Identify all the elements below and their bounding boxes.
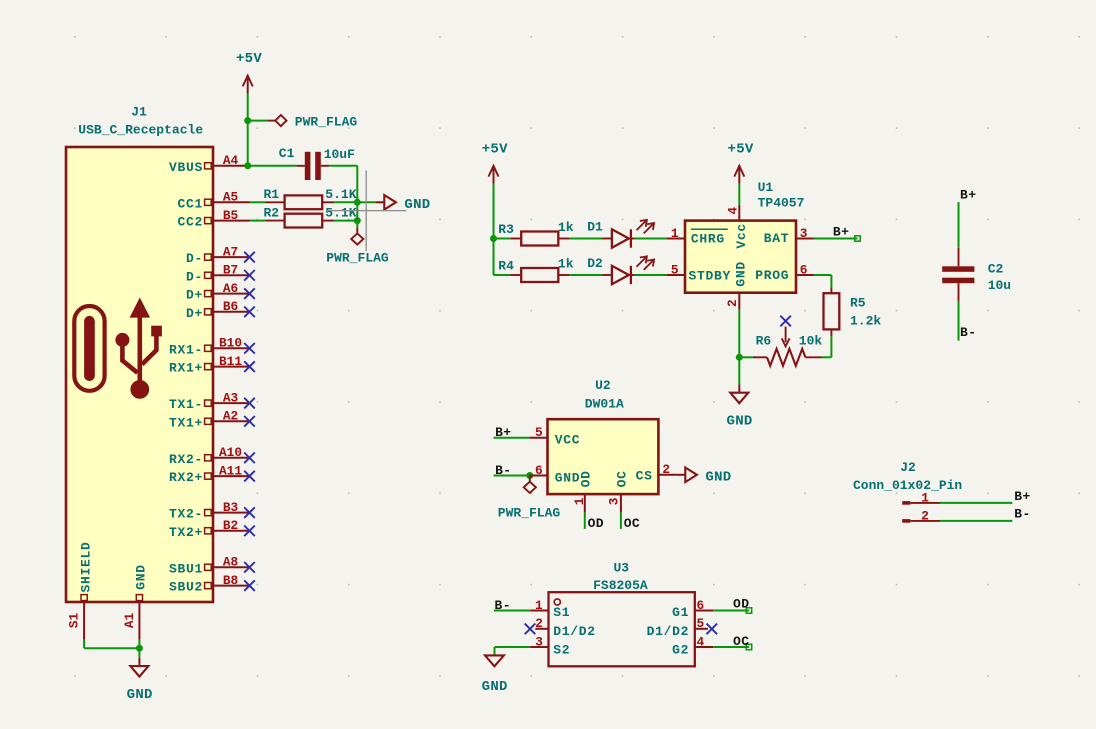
svg-text:J1: J1 bbox=[131, 104, 147, 119]
junction GND net under U1 bbox=[736, 354, 743, 361]
svg-text:GND: GND bbox=[127, 687, 153, 703]
wire BAT to B+ bbox=[814, 238, 858, 240]
svg-text:B8: B8 bbox=[223, 573, 238, 588]
svg-text:+5V: +5V bbox=[728, 141, 754, 157]
cursor crosshair bbox=[326, 171, 406, 252]
svg-text:R3: R3 bbox=[498, 222, 514, 237]
svg-text:GND: GND bbox=[705, 469, 731, 485]
svg-text:2: 2 bbox=[921, 508, 929, 523]
IC U1 TP4057 body bbox=[685, 180, 804, 293]
svg-text:CC2: CC2 bbox=[177, 215, 203, 230]
svg-text:C1: C1 bbox=[279, 146, 295, 161]
svg-text:1: 1 bbox=[535, 598, 543, 613]
svg-text:VCC: VCC bbox=[555, 433, 581, 448]
svg-text:R4: R4 bbox=[498, 259, 514, 274]
svg-text:RX2+: RX2+ bbox=[169, 470, 203, 485]
svg-text:D+: D+ bbox=[186, 288, 203, 303]
svg-text:DW01A: DW01A bbox=[585, 397, 624, 412]
svg-text:R2: R2 bbox=[263, 206, 279, 221]
U2 pin 3 (OC) bbox=[607, 494, 622, 512]
junction at J1 ground bbox=[136, 645, 143, 652]
svg-text:Vcc: Vcc bbox=[734, 223, 749, 249]
U1 pin 6 (PROG) bbox=[796, 262, 814, 277]
svg-text:B5: B5 bbox=[223, 208, 239, 223]
U3 pin 6 (G1) bbox=[695, 598, 713, 613]
svg-text:STDBY: STDBY bbox=[689, 269, 732, 284]
svg-text:D-: D- bbox=[186, 251, 203, 266]
svg-text:A10: A10 bbox=[219, 445, 242, 460]
J2 pin 1 bbox=[902, 490, 940, 505]
resistor R2 5.1K bbox=[250, 206, 358, 228]
ground symbol at U3 bbox=[482, 655, 508, 695]
wire B+ to U2 pin 5 bbox=[494, 437, 530, 439]
wire J2 pin1 to B+ bbox=[940, 502, 1012, 504]
svg-text:R6: R6 bbox=[756, 334, 772, 349]
svg-text:5: 5 bbox=[535, 425, 543, 440]
svg-text:U3: U3 bbox=[613, 560, 629, 575]
svg-text:SHIELD: SHIELD bbox=[78, 541, 93, 592]
svg-text:USB_C_Receptacle: USB_C_Receptacle bbox=[78, 123, 203, 138]
svg-text:4: 4 bbox=[726, 207, 741, 215]
unconnected wire end marker bbox=[746, 644, 751, 649]
svg-text:S1: S1 bbox=[67, 613, 82, 629]
J1 pin B5 (CC2) bbox=[177, 208, 249, 230]
junction CC2 net bbox=[354, 217, 361, 224]
J1 pin B8 (SBU2) bbox=[169, 573, 255, 595]
J1 pin A6 (D+) bbox=[186, 281, 255, 303]
svg-text:A2: A2 bbox=[223, 409, 238, 424]
J2 pin 2 bbox=[902, 508, 940, 523]
svg-text:G1: G1 bbox=[672, 605, 689, 620]
svg-text:D1/D2: D1/D2 bbox=[647, 624, 690, 639]
svg-text:B-: B- bbox=[1014, 507, 1030, 522]
svg-text:C2: C2 bbox=[988, 261, 1004, 276]
J1 pin A5 (CC1) bbox=[177, 190, 249, 212]
U2 pin 5 (VCC) bbox=[530, 425, 548, 440]
svg-text:OD: OD bbox=[579, 470, 594, 487]
svg-text:PWR_FLAG: PWR_FLAG bbox=[295, 115, 358, 130]
wire B- to U2 pin 6 bbox=[494, 475, 530, 477]
wire PROG to R5 bbox=[814, 275, 832, 287]
svg-text:D1: D1 bbox=[587, 219, 603, 234]
wire CC1 junction to GND bbox=[357, 201, 375, 203]
wire S1 to GND net bbox=[84, 640, 140, 658]
svg-text:+5V: +5V bbox=[236, 51, 262, 67]
svg-text:SBU2: SBU2 bbox=[169, 580, 203, 595]
svg-text:2: 2 bbox=[535, 616, 543, 631]
svg-text:1: 1 bbox=[572, 497, 587, 505]
U2 pin 2 (CS) bbox=[658, 462, 676, 477]
unconnected wire end marker bbox=[855, 236, 860, 241]
svg-text:PWR_FLAG: PWR_FLAG bbox=[498, 506, 561, 521]
svg-text:B6: B6 bbox=[223, 299, 238, 314]
svg-text:A8: A8 bbox=[223, 555, 238, 570]
svg-text:CHRG: CHRG bbox=[691, 232, 725, 247]
svg-text:D1/D2: D1/D2 bbox=[553, 624, 596, 639]
svg-text:B+: B+ bbox=[960, 188, 976, 203]
svg-text:10k: 10k bbox=[799, 334, 823, 349]
svg-text:B7: B7 bbox=[223, 263, 238, 278]
J1 pin A11 (RX2+) bbox=[169, 463, 255, 485]
svg-text:OC: OC bbox=[733, 634, 749, 649]
svg-text:1.2k: 1.2k bbox=[850, 314, 881, 329]
ground symbol below J1 bbox=[127, 658, 153, 703]
svg-text:1k: 1k bbox=[558, 256, 574, 271]
svg-text:J2: J2 bbox=[900, 460, 916, 475]
J1 pin A8 (SBU1) bbox=[169, 555, 255, 577]
J1 pin A1 (GND) bbox=[122, 564, 149, 640]
U3 pin 3 (S2) bbox=[530, 634, 548, 649]
junction U2 pin 6 bbox=[526, 472, 533, 479]
resistor R4 1k bbox=[494, 256, 603, 282]
svg-text:B+: B+ bbox=[1014, 489, 1030, 504]
svg-text:2: 2 bbox=[662, 462, 670, 477]
wire G2 to OC bbox=[713, 646, 749, 648]
J1 pin A3 (TX1-) bbox=[169, 390, 255, 412]
svg-text:PROG: PROG bbox=[755, 268, 789, 283]
svg-text:Conn_01x02_Pin: Conn_01x02_Pin bbox=[853, 478, 962, 493]
U3 pin 4 (G2) bbox=[695, 634, 713, 649]
svg-text:GND: GND bbox=[733, 261, 748, 287]
svg-text:5: 5 bbox=[697, 616, 705, 631]
svg-text:OC: OC bbox=[624, 516, 640, 531]
U1 pin 3 (BAT) bbox=[796, 226, 814, 241]
svg-text:B-: B- bbox=[960, 325, 976, 340]
IC U3 FS8205A body bbox=[549, 560, 695, 666]
svg-text:10uF: 10uF bbox=[324, 147, 355, 162]
svg-text:A7: A7 bbox=[223, 244, 238, 259]
U1 pin 5 bbox=[667, 262, 685, 277]
svg-text:1k: 1k bbox=[558, 220, 574, 235]
junction VBUS bbox=[244, 162, 251, 169]
svg-text:FS8205A: FS8205A bbox=[593, 578, 648, 593]
svg-text:GND: GND bbox=[404, 197, 430, 213]
svg-text:B+: B+ bbox=[833, 225, 849, 240]
wire B+ to C2 bbox=[958, 202, 960, 248]
J1 pin B11 (RX1+) bbox=[169, 354, 255, 376]
svg-text:RX1-: RX1- bbox=[169, 342, 203, 357]
svg-text:A5: A5 bbox=[223, 190, 239, 205]
svg-text:PWR_FLAG: PWR_FLAG bbox=[326, 251, 389, 266]
svg-text:10u: 10u bbox=[988, 278, 1011, 293]
connector J2 Conn_01x02_Pin bbox=[853, 460, 962, 493]
wire D1 to U1 pin 1 bbox=[635, 238, 667, 240]
wire VBUS to C1 bbox=[250, 165, 297, 167]
J1 pin S1 (SHIELD) bbox=[67, 541, 94, 639]
svg-text:SBU1: SBU1 bbox=[169, 561, 203, 576]
power flag PWR_FLAG (VBUS) bbox=[267, 115, 357, 130]
wire C1 to GND branch bbox=[329, 166, 357, 227]
svg-text:GND: GND bbox=[555, 470, 581, 485]
resistor R1 5.1K bbox=[250, 187, 358, 209]
wire +5V to U1 pin 4 bbox=[738, 184, 740, 205]
svg-text:TX2-: TX2- bbox=[169, 507, 203, 522]
IC U2 DW01A body bbox=[548, 378, 659, 494]
svg-text:GND: GND bbox=[482, 679, 508, 695]
J1 pin A7 (D-) bbox=[186, 244, 255, 266]
svg-text:A4: A4 bbox=[223, 153, 239, 168]
J1 pin A4 (VBUS) bbox=[169, 153, 250, 175]
svg-text:1: 1 bbox=[921, 490, 929, 505]
svg-text:TP4057: TP4057 bbox=[758, 196, 805, 211]
capacitor C1 10uF bbox=[279, 146, 355, 180]
svg-text:OD: OD bbox=[733, 597, 749, 612]
wire U3 pin 3 to ground bbox=[495, 647, 531, 655]
svg-text:3: 3 bbox=[800, 226, 808, 241]
J1 pin A10 (RX2-) bbox=[169, 445, 255, 467]
power flag PWR_FLAG (CC nets) bbox=[326, 227, 389, 266]
svg-text:S1: S1 bbox=[553, 605, 570, 620]
J1 pin B10 (RX1-) bbox=[169, 336, 255, 358]
svg-text:B2: B2 bbox=[223, 518, 238, 533]
svg-text:GND: GND bbox=[134, 564, 149, 590]
U1 pin 2 (GND) bbox=[725, 293, 740, 310]
capacitor C2 10u bbox=[942, 248, 1011, 301]
wire C2 to B- bbox=[958, 301, 960, 341]
wire R6 to U1 GND bbox=[739, 356, 753, 358]
svg-text:CS: CS bbox=[636, 469, 653, 484]
J1 pin B6 (D+) bbox=[186, 299, 255, 321]
resistor R5 1.2k bbox=[824, 287, 882, 336]
svg-text:A6: A6 bbox=[223, 281, 238, 296]
svg-text:CC1: CC1 bbox=[177, 196, 203, 211]
svg-text:3: 3 bbox=[607, 497, 622, 505]
svg-text:B3: B3 bbox=[223, 500, 239, 515]
svg-text:S2: S2 bbox=[553, 643, 570, 658]
svg-text:2: 2 bbox=[725, 299, 740, 307]
svg-text:D2: D2 bbox=[587, 256, 603, 271]
svg-text:VBUS: VBUS bbox=[169, 160, 203, 175]
no-connect on R6 wiper bbox=[780, 316, 791, 327]
svg-text:6: 6 bbox=[697, 598, 705, 613]
power +5V (VBUS) bbox=[236, 51, 262, 93]
ground symbol under U1 bbox=[727, 384, 753, 429]
wire U2 OD stub bbox=[584, 512, 586, 529]
svg-text:3: 3 bbox=[535, 634, 543, 649]
J1 pin B3 (TX2-) bbox=[169, 500, 255, 522]
junction +5V / PWR_FLAG bbox=[244, 117, 251, 124]
U3 pin 5 (D1/D2) with no-connect bbox=[695, 616, 717, 634]
power +5V (charger input) bbox=[482, 141, 508, 183]
connector J1 USB_C_Receptacle body bbox=[66, 104, 213, 602]
unconnected wire end marker bbox=[746, 608, 751, 613]
wire U1 pin2 down bbox=[738, 310, 740, 385]
wire +5V to VBUS bbox=[247, 93, 249, 165]
svg-text:RX2-: RX2- bbox=[169, 452, 203, 467]
svg-text:R5: R5 bbox=[850, 296, 866, 311]
J1 pin A2 (TX1+) bbox=[169, 409, 255, 431]
svg-text:R1: R1 bbox=[263, 187, 279, 202]
junction CC1 net bbox=[354, 199, 361, 206]
svg-text:6: 6 bbox=[535, 463, 543, 478]
wire D2 to U1 pin 5 bbox=[635, 274, 667, 276]
svg-text:B11: B11 bbox=[219, 354, 242, 369]
U3 pin 1 (S1) bbox=[530, 598, 548, 613]
svg-text:TX1+: TX1+ bbox=[169, 415, 203, 430]
svg-text:6: 6 bbox=[800, 262, 808, 277]
svg-text:4: 4 bbox=[697, 634, 705, 649]
wire J2 pin2 to B- bbox=[940, 520, 1012, 522]
svg-text:1: 1 bbox=[671, 226, 679, 241]
svg-text:5.1K: 5.1K bbox=[325, 187, 356, 202]
svg-text:OC: OC bbox=[615, 470, 630, 487]
U1 pin 1 bbox=[667, 226, 685, 241]
wire to PWR_FLAG bbox=[248, 120, 268, 122]
ground symbol right of R1 bbox=[376, 195, 431, 213]
ground symbol at U2 CS bbox=[677, 468, 732, 486]
power +5V (U1 Vcc) bbox=[728, 141, 754, 183]
svg-text:5: 5 bbox=[671, 262, 679, 277]
U3 pin 2 (D1/D2) with no-connect bbox=[525, 616, 549, 634]
J1 USB icon bbox=[74, 298, 162, 399]
power flag PWR_FLAG (B-) bbox=[498, 476, 561, 521]
svg-text:G2: G2 bbox=[672, 643, 689, 658]
svg-text:5.1K: 5.1K bbox=[325, 206, 356, 221]
junction R3 branch bbox=[490, 235, 497, 242]
potentiometer R6 10k bbox=[753, 327, 822, 366]
svg-text:TX2+: TX2+ bbox=[169, 525, 203, 540]
svg-text:A1: A1 bbox=[122, 613, 137, 629]
U2 pin 6 (GND) bbox=[530, 463, 548, 478]
wire R5 to R6 bbox=[822, 336, 832, 357]
resistor R3 1k bbox=[494, 220, 603, 246]
svg-text:A11: A11 bbox=[219, 463, 242, 478]
svg-text:B10: B10 bbox=[219, 336, 242, 351]
wire +5V down to R3/R4 bbox=[493, 184, 495, 275]
J1 pin B2 (TX2+) bbox=[169, 518, 255, 540]
svg-text:U1: U1 bbox=[758, 180, 774, 195]
svg-text:A3: A3 bbox=[223, 390, 239, 405]
svg-text:D-: D- bbox=[186, 269, 203, 284]
U1 pin 4 (Vcc) bbox=[726, 205, 741, 221]
svg-text:BAT: BAT bbox=[764, 231, 790, 246]
svg-text:D+: D+ bbox=[186, 306, 203, 321]
svg-text:TX1-: TX1- bbox=[169, 397, 203, 412]
svg-text:RX1+: RX1+ bbox=[169, 361, 203, 376]
svg-text:GND: GND bbox=[727, 414, 753, 430]
LED D1 bbox=[587, 219, 654, 247]
J1 pin B7 (D-) bbox=[186, 263, 255, 285]
wire U2 OC stub bbox=[620, 512, 622, 529]
svg-text:+5V: +5V bbox=[482, 141, 508, 157]
wire B- to U3 pin 1 bbox=[494, 610, 530, 612]
U2 pin 1 (OD) bbox=[572, 494, 587, 512]
svg-text:U2: U2 bbox=[595, 378, 611, 393]
wire G1 to OD bbox=[713, 610, 749, 612]
LED D2 bbox=[587, 256, 654, 284]
svg-text:OD: OD bbox=[588, 516, 604, 531]
